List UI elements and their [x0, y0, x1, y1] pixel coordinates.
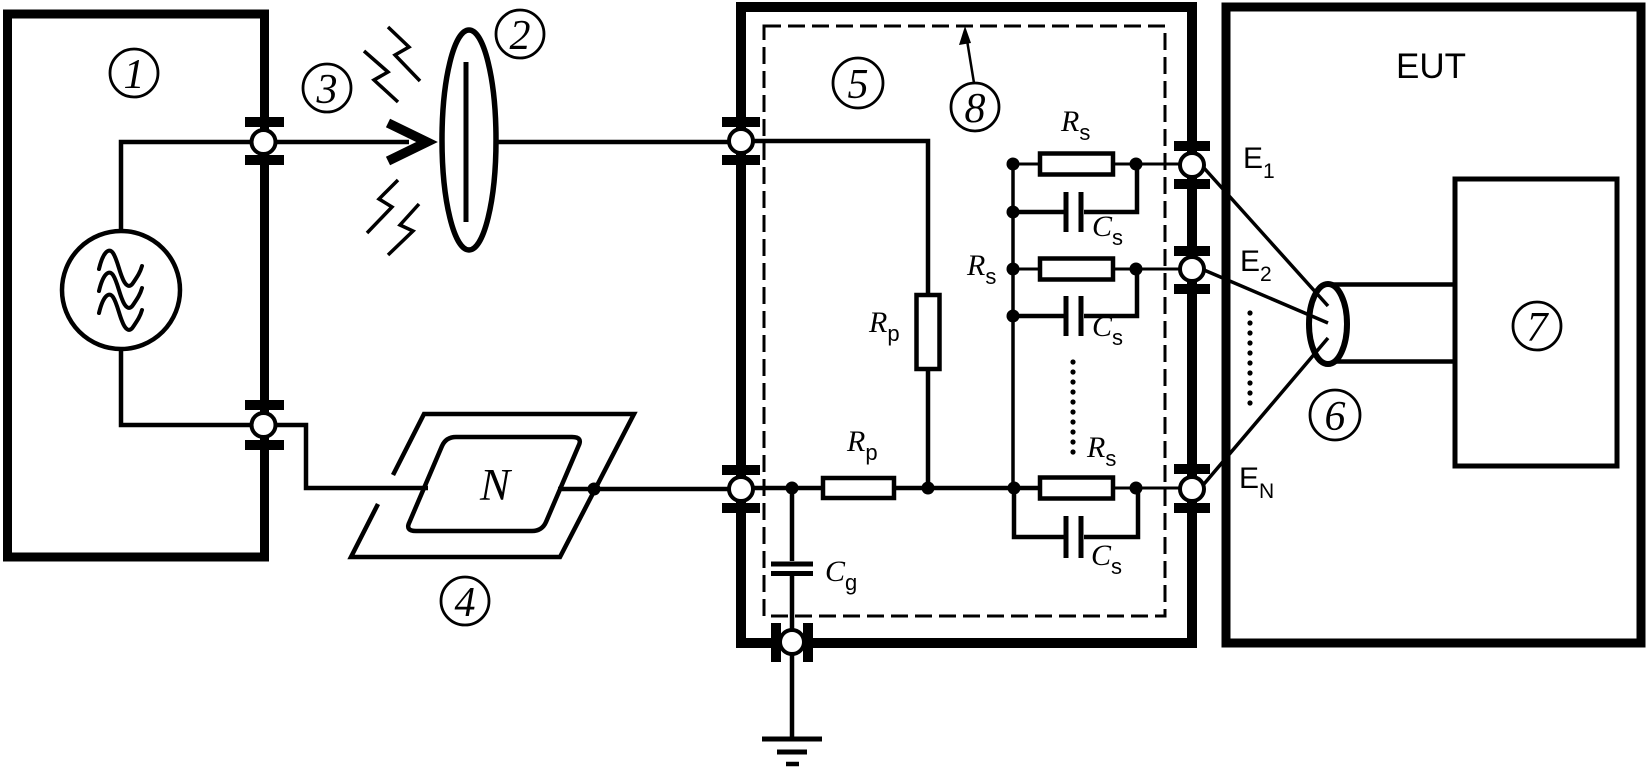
wire top rail inside box5	[753, 141, 928, 293]
wire Rs row1 to connector	[1113, 163, 1180, 166]
wire N output to coupling box	[558, 487, 729, 492]
junction dots row2	[1007, 263, 1020, 276]
coupling network N outer parallelogram (item 4)	[351, 414, 634, 557]
resistor Rs row3	[1040, 478, 1113, 499]
circled label 2	[496, 10, 544, 59]
resistor Rp (vertical)	[917, 295, 940, 369]
wire Cg to bottom feed-through	[790, 576, 795, 630]
capacitor Cs row1 loop	[1013, 168, 1137, 212]
wire generator top to feed-through	[121, 142, 250, 231]
circled label 1	[110, 49, 158, 98]
svg-text:7: 7	[1527, 305, 1550, 351]
decoupling element item 2 (ellipse)	[442, 30, 496, 250]
ellipsis dots inside box5	[1070, 359, 1075, 454]
item 2 inner plate line	[464, 62, 469, 222]
wire Rs row2 to connector	[1113, 268, 1180, 271]
svg-text:1: 1	[124, 52, 145, 98]
resistor Rs row2	[1040, 259, 1113, 280]
junction dots row3	[1008, 482, 1021, 495]
generator wave symbol	[99, 251, 142, 330]
wire junction to Cg	[790, 488, 795, 561]
circled label 4	[441, 577, 489, 626]
feed-through connector box5 right EN	[1174, 464, 1210, 513]
test generator G1	[62, 231, 180, 349]
svg-text:4: 4	[455, 580, 476, 626]
coupling/decoupling network box (item 5)	[741, 7, 1192, 643]
junction Rp vertical at bottom rail	[922, 482, 935, 495]
svg-text:EUT: EUT	[1396, 47, 1466, 86]
resistor Rs row1	[1040, 154, 1113, 175]
junction bus/Cs row2	[1007, 310, 1020, 323]
junction dots row1	[1007, 158, 1020, 171]
generator box (item 1)	[8, 14, 265, 557]
svg-text:N: N	[479, 460, 513, 510]
cable line bottom to box7	[1330, 359, 1455, 364]
cable line top to box7	[1330, 282, 1455, 287]
junction bus/Cs row1	[1007, 206, 1020, 219]
wire generator bottom to feed-through	[121, 349, 250, 425]
feed-through connector box5 left bottom	[722, 465, 760, 513]
circled label 6	[1310, 390, 1360, 440]
shielded enclosure dashed box (item 8)	[764, 26, 1165, 616]
row1: wire bus to Rs	[1013, 163, 1040, 166]
interference bolt lower-left	[367, 180, 398, 233]
svg-text:6: 6	[1325, 394, 1346, 440]
bottom feed-through connector	[771, 623, 813, 662]
feed-through connector box1 bottom	[245, 400, 284, 450]
svg-text:8: 8	[965, 86, 986, 132]
svg-text:2: 2	[510, 13, 531, 59]
circled label 5	[833, 58, 883, 108]
interference bolt upper-right	[388, 27, 420, 81]
circled label 8	[951, 83, 999, 132]
wire EN line	[1204, 338, 1328, 484]
wire E1 line	[1204, 168, 1328, 306]
EUT inner box (item 7)	[1455, 179, 1617, 466]
ellipsis dots EUT side	[1247, 310, 1252, 405]
arrowhead item 3	[388, 123, 427, 161]
wire feed-through to ground	[790, 654, 795, 737]
svg-text:3: 3	[316, 67, 338, 113]
capacitor Cs row3 loop	[1014, 492, 1138, 537]
capacitor Cg	[771, 564, 813, 574]
Rs/Cs ladder: vertical bus	[1011, 164, 1015, 488]
junction Cg tap	[786, 482, 799, 495]
feed-through connector box5 right E2	[1174, 246, 1210, 294]
resistor Rp (horizontal)	[823, 478, 894, 498]
wire item2 to coupling network	[496, 140, 729, 145]
circled label 7	[1513, 302, 1561, 351]
feed-through connector box5 left top	[722, 117, 760, 165]
wire Rs row3 to connector	[1113, 487, 1180, 490]
svg-text:5: 5	[848, 62, 869, 108]
capacitor Cs row2 loop	[1013, 273, 1137, 316]
wire bottom rail inside box5	[753, 486, 823, 491]
circled label 3	[303, 64, 351, 113]
wire E2 line	[1204, 270, 1328, 323]
feed-through connector box5 right E1	[1174, 141, 1210, 189]
EUT box	[1226, 7, 1641, 643]
interference bolt lower-right	[388, 204, 419, 255]
wire box1 to arrow	[276, 140, 409, 145]
row2 wire bus to Rs	[1013, 268, 1040, 271]
wire box1 bottom to network N	[276, 425, 428, 488]
connector ellipse item 6	[1309, 284, 1347, 364]
junction on N right edge	[588, 483, 601, 496]
feed-through connector box1 top	[245, 117, 284, 165]
network N inner rounded parallelogram	[408, 437, 580, 531]
leader arrow 8 to dashed box	[966, 34, 974, 83]
ground symbol	[762, 739, 822, 764]
interference bolt upper-left	[364, 51, 398, 102]
wire Rp bottom to rail	[926, 371, 931, 488]
wire Rp to Rs bottom row	[894, 486, 1040, 491]
